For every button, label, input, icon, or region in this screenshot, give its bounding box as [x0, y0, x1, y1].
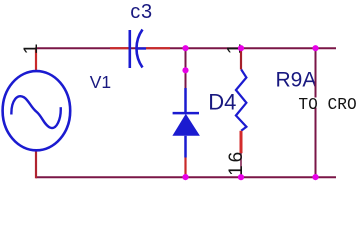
svg-text:16: 16: [226, 149, 247, 176]
wire capacitor left stub (red): [110, 47, 129, 49]
diode D4 bottom lead (blue): [184, 136, 187, 158]
svg-text:D4: D4: [208, 89, 236, 114]
svg-text:TO CRO: TO CRO: [298, 96, 356, 114]
wire resistor bottom net (thin maroon): [240, 153, 242, 177]
junction dot output bottom: [312, 174, 318, 180]
junction dot resistor top: [238, 45, 244, 51]
wire source top lead (red stub): [35, 47, 37, 70]
wire resistor bottom stub (red thick): [240, 131, 243, 153]
svg-text:c3: c3: [130, 1, 153, 23]
junction dot diode bottom: [182, 174, 188, 180]
svg-text:1: 1: [20, 43, 42, 54]
AC source V1 sine wave: [11, 96, 60, 128]
wire capacitor right stub (red): [146, 47, 170, 49]
junction dot top rail / diode: [182, 45, 188, 51]
svg-text:V1: V1: [90, 72, 111, 92]
diode D4 triangle: [172, 114, 200, 136]
wire diode branch upper (maroon): [185, 48, 187, 88]
junction dot output top: [312, 45, 318, 51]
wire resistor top stub (dark red): [240, 48, 242, 69]
capacitor c3 right lead stub (blue): [137, 47, 146, 49]
wire source bottom lead (red stub): [35, 151, 37, 178]
wire output branch lower (maroon): [315, 108, 317, 178]
capacitor c3 left plate: [129, 30, 132, 68]
diode D4 cathode bar: [173, 112, 199, 115]
wire output branch upper (maroon): [315, 48, 317, 97]
junction dot resistor bottom: [238, 174, 244, 180]
wire bottom rail (net): [36, 176, 336, 178]
junction dot diode upper node: [182, 67, 188, 73]
wire diode bottom stub (red): [184, 158, 186, 177]
wire top rail (net): [36, 47, 336, 49]
resistor R9A zigzag: [236, 70, 247, 131]
diode D4 top lead (blue): [184, 88, 187, 113]
svg-text:R9A: R9A: [276, 69, 317, 92]
AC source V1 circle: [3, 71, 71, 150]
capacitor c3 right curved plate: [136, 30, 142, 68]
